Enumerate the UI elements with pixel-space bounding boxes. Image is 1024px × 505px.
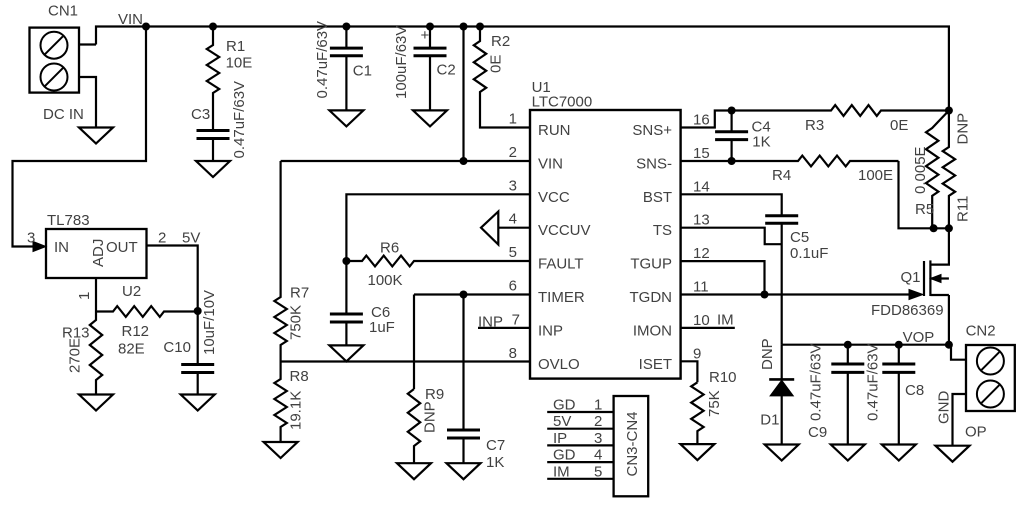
svg-text:SNS+: SNS+: [632, 122, 672, 139]
svg-text:15: 15: [693, 145, 710, 162]
svg-text:100K: 100K: [368, 272, 403, 289]
junction TIMER/C7: [460, 291, 468, 299]
ground C9: [831, 445, 865, 461]
svg-text:C3: C3: [191, 106, 210, 123]
junction rail C1: [342, 23, 350, 31]
junction 5V node: [194, 307, 202, 315]
svg-text:100E: 100E: [858, 167, 893, 184]
svg-text:C2: C2: [437, 62, 456, 79]
svg-text:U2: U2: [122, 283, 141, 300]
ground R13: [79, 395, 113, 411]
svg-text:R7: R7: [290, 285, 309, 302]
svg-text:1: 1: [509, 111, 517, 128]
svg-text:VIN: VIN: [538, 155, 563, 172]
connector CN2: [966, 345, 1015, 411]
resistor R4: [732, 156, 899, 167]
svg-text:0E: 0E: [890, 117, 908, 134]
wire drain to Q1: [930, 228, 949, 264]
svg-text:C7: C7: [486, 437, 505, 454]
wire C2 top lead: [429, 27, 431, 49]
resistor R13: [90, 311, 102, 395]
svg-text:DNP: DNP: [955, 113, 972, 145]
junction C4 top: [728, 107, 736, 115]
ground C2: [413, 110, 447, 126]
wire TGDN pin11 to gate: [681, 293, 910, 295]
wire C7 top lead: [462, 295, 464, 431]
ground R8: [264, 442, 298, 458]
wire SNS- pin15: [681, 160, 732, 162]
regulator U2 TL783: [46, 229, 147, 278]
svg-text:VCC: VCC: [538, 189, 570, 206]
svg-text:0.47uF/63V: 0.47uF/63V: [231, 81, 248, 159]
junction rail R1: [209, 23, 217, 31]
wire C6 top lead: [345, 261, 347, 314]
junction C9: [844, 341, 852, 349]
svg-text:IM: IM: [717, 311, 734, 328]
svg-text:0.005E: 0.005E: [912, 146, 929, 194]
svg-text:FDD86369: FDD86369: [871, 302, 944, 319]
svg-text:R1: R1: [226, 38, 245, 55]
svg-text:270E: 270E: [67, 338, 84, 373]
wire C5 bottom to VOP: [781, 223, 783, 344]
wire C10 bottom lead: [197, 373, 199, 395]
svg-text:750K: 750K: [288, 305, 305, 340]
svg-text:R11: R11: [955, 196, 972, 222]
svg-text:11: 11: [693, 279, 709, 296]
svg-text:6: 6: [509, 278, 517, 295]
resistor R5: [926, 111, 949, 229]
svg-text:R6: R6: [380, 240, 399, 257]
junction R11 bottom / drain node: [945, 224, 953, 232]
wire C8 top lead: [898, 345, 900, 364]
wire C9 bottom lead: [847, 372, 849, 444]
svg-text:TS: TS: [653, 222, 672, 239]
junction VCC/R6/C6 node: [342, 257, 350, 265]
svg-text:CN3-CN4: CN3-CN4: [624, 411, 641, 476]
svg-text:TGUP: TGUP: [630, 256, 672, 273]
resistor R2: [474, 27, 530, 128]
svg-text:OVLO: OVLO: [538, 356, 580, 373]
svg-text:GD: GD: [553, 447, 576, 464]
svg-text:C10: C10: [163, 339, 191, 356]
svg-text:9: 9: [693, 345, 701, 362]
svg-text:R4: R4: [772, 167, 791, 184]
resistor R9: [408, 389, 420, 463]
resistor R1: [207, 27, 219, 131]
svg-text:IMON: IMON: [633, 322, 672, 339]
svg-text:5: 5: [594, 463, 602, 480]
svg-text:C8: C8: [905, 382, 924, 399]
ground C1: [329, 110, 363, 126]
capacitor C6: [330, 314, 363, 322]
svg-text:IM: IM: [553, 463, 570, 480]
svg-text:5: 5: [509, 244, 517, 261]
svg-text:OP: OP: [965, 424, 987, 441]
op-amp U1 LTC7000 body: [530, 110, 681, 379]
svg-text:VOP: VOP: [903, 329, 935, 346]
svg-text:VIN: VIN: [118, 11, 143, 28]
svg-text:ISET: ISET: [639, 356, 672, 373]
svg-text:IP: IP: [553, 430, 567, 447]
svg-text:10E: 10E: [226, 55, 253, 72]
svg-text:1: 1: [594, 397, 602, 414]
svg-text:GND: GND: [936, 391, 953, 425]
svg-text:5V: 5V: [553, 413, 571, 430]
ground C6: [329, 345, 363, 361]
junction rail C2: [426, 23, 434, 31]
svg-text:1K: 1K: [486, 454, 504, 471]
svg-text:100uF/63V: 100uF/63V: [393, 26, 410, 99]
junction rail R2: [476, 23, 484, 31]
wire C8 bottom lead: [898, 372, 900, 444]
svg-text:C5: C5: [790, 229, 809, 246]
transistor Q1 FDD86369: [924, 260, 949, 296]
svg-text:C1: C1: [353, 63, 372, 80]
wire ISET pin9 down: [681, 361, 698, 382]
svg-text:2: 2: [509, 144, 517, 161]
wire C3 to ground: [212, 139, 214, 162]
pin 3 arrow into U2 IN: [33, 242, 46, 252]
svg-text:4: 4: [509, 211, 517, 228]
junction TGUP/TGDN: [761, 291, 769, 299]
svg-text:RUN: RUN: [538, 122, 571, 139]
wire VCC U1 pin3: [346, 194, 530, 261]
svg-text:5V: 5V: [182, 230, 200, 247]
svg-text:10uF/10V: 10uF/10V: [201, 290, 218, 355]
svg-text:0.1uF: 0.1uF: [790, 245, 828, 262]
wire OVLO U1 pin8: [281, 360, 530, 362]
wire BST pin14 to C5: [681, 194, 782, 215]
resistor R10: [691, 382, 703, 444]
ground C10: [181, 395, 215, 411]
wire C4 bottom lead: [730, 140, 732, 161]
svg-text:R5: R5: [915, 201, 934, 218]
capacitor C5: [765, 216, 798, 224]
svg-text:IN: IN: [54, 239, 69, 256]
svg-text:CN1: CN1: [48, 3, 78, 20]
ground R10: [680, 444, 714, 460]
pin 4 VCCUV open flag: [481, 212, 498, 245]
svg-text:75K: 75K: [706, 390, 723, 417]
resistor R11: [943, 111, 955, 229]
wire C1 top lead: [345, 27, 347, 49]
svg-text:R10: R10: [709, 369, 737, 386]
svg-text:1: 1: [76, 292, 93, 300]
svg-text:14: 14: [693, 178, 710, 195]
wire IMON pin10 stub: [681, 327, 735, 329]
capacitor C4: [715, 132, 748, 140]
svg-text:7: 7: [512, 311, 520, 328]
svg-text:3: 3: [27, 230, 35, 247]
wire VIN to U1 pin2: [281, 160, 530, 162]
svg-text:8: 8: [509, 345, 517, 362]
svg-text:DNP: DNP: [422, 401, 439, 433]
wire C1 bottom lead: [345, 56, 347, 111]
ground CN2: [936, 446, 970, 462]
junction R3/R5/R11 top node: [945, 107, 953, 115]
capacitor C3: [197, 131, 230, 139]
junction rail riser: [460, 23, 468, 31]
resistor R3: [732, 105, 949, 116]
svg-text:82E: 82E: [118, 341, 145, 358]
wire SNS+ pin16 up: [681, 111, 732, 128]
svg-text:R8: R8: [290, 368, 309, 385]
wire U2 ADJ down: [95, 278, 97, 311]
ground R9: [397, 463, 431, 479]
svg-text:DNP: DNP: [759, 338, 776, 370]
svg-text:1K: 1K: [752, 133, 770, 150]
ground C3: [196, 161, 230, 177]
svg-text:TIMER: TIMER: [538, 289, 585, 306]
resistor R12: [96, 306, 198, 317]
junction C4 bottom: [728, 157, 736, 165]
wire C7 bottom lead: [462, 438, 464, 463]
ground D1: [765, 445, 799, 461]
ground C7: [447, 463, 481, 479]
svg-text:2: 2: [158, 230, 166, 247]
ground C8: [882, 445, 916, 461]
svg-text:INP: INP: [538, 322, 563, 339]
ground CN1: [79, 128, 113, 144]
wire TIMER U1 pin6: [414, 293, 530, 295]
wire CN3-CN4 pin 3 stub: [547, 444, 613, 446]
wire C10 top lead: [197, 311, 199, 365]
wire CN1 pin2 to ground: [79, 77, 96, 128]
svg-text:19.1K: 19.1K: [288, 391, 305, 430]
capacitor C9: [831, 364, 864, 372]
wire VOP rail to CN2: [782, 345, 966, 360]
wire CN3-CN4 pin 5 stub: [547, 478, 613, 480]
svg-text:DC IN: DC IN: [43, 106, 84, 123]
wire VIN to U2 IN: [13, 27, 147, 247]
svg-text:INP: INP: [478, 314, 503, 331]
svg-text:VCCUV: VCCUV: [538, 222, 591, 239]
resistor R7: [274, 161, 286, 362]
svg-text:0.47uF/63V: 0.47uF/63V: [314, 21, 331, 99]
svg-text:3: 3: [594, 430, 602, 447]
wire C6 bottom lead: [345, 322, 347, 345]
svg-text:10: 10: [693, 312, 710, 329]
wire D1 anode lead: [781, 396, 783, 445]
wire CN1 pin1 stub: [79, 43, 96, 45]
junction R5 bottom: [930, 224, 938, 232]
wire TGUP pin12 down: [681, 261, 765, 294]
svg-text:OUT: OUT: [106, 239, 138, 256]
svg-text:1uF: 1uF: [369, 319, 395, 336]
svg-text:D1: D1: [760, 411, 779, 428]
capacitor C2 electrolytic: [414, 48, 447, 56]
capacitor C8: [882, 364, 915, 372]
wire rail riser to VIN pin: [462, 27, 464, 162]
wire VCCUV U1 pin4 stub: [498, 227, 530, 229]
capacitor C10: [181, 365, 214, 373]
svg-text:ADJ: ADJ: [90, 239, 107, 267]
svg-text:16: 16: [693, 112, 710, 129]
resistor R6: [346, 256, 530, 267]
wire VIN top rail: [96, 27, 949, 111]
junction C8: [895, 341, 903, 349]
svg-text:R9: R9: [425, 386, 444, 403]
wire net INP stub U1 pin7: [478, 327, 530, 329]
svg-text:GD: GD: [553, 397, 576, 414]
svg-text:0.47uF/63V: 0.47uF/63V: [808, 343, 825, 421]
wire C2 bottom lead: [429, 56, 431, 111]
svg-text:13: 13: [693, 212, 710, 229]
svg-text:R2: R2: [491, 33, 510, 50]
connector CN3-CN4: [614, 396, 649, 496]
svg-text:R3: R3: [805, 117, 824, 134]
resistor R8: [274, 362, 286, 443]
svg-text:TL783: TL783: [47, 212, 90, 229]
svg-text:TGDN: TGDN: [630, 289, 673, 306]
svg-text:LTC7000: LTC7000: [532, 94, 593, 111]
junction VIN rail / CN1: [142, 23, 150, 31]
diode D1: [769, 379, 794, 396]
wire D1 cathode lead: [781, 345, 783, 380]
wire CN3-CN4 pin 2 stub: [547, 428, 613, 430]
svg-text:Q1: Q1: [901, 269, 921, 286]
wire U2 OUT to 5V node: [147, 246, 198, 312]
svg-text:C9: C9: [808, 424, 827, 441]
wire C4 top lead: [730, 111, 732, 132]
connector CN1 DC IN: [30, 28, 80, 93]
wire C9 top lead: [847, 345, 849, 364]
svg-text:+: +: [421, 27, 430, 44]
junction Q1 source / VOP: [945, 341, 953, 349]
wire CN3-CN4 pin 1 stub: [547, 411, 613, 413]
svg-text:R12: R12: [122, 323, 150, 340]
gate arrow: [909, 290, 923, 300]
capacitor C1: [330, 48, 363, 56]
svg-text:CN2: CN2: [966, 323, 996, 340]
svg-text:FAULT: FAULT: [538, 256, 584, 273]
svg-text:3: 3: [509, 177, 517, 194]
svg-text:2: 2: [594, 413, 602, 430]
svg-text:0.47uF/63V: 0.47uF/63V: [865, 343, 882, 421]
wire TS pin13 jog: [681, 228, 782, 245]
capacitor C7: [447, 430, 480, 438]
junction riser VIN pin: [460, 157, 468, 165]
svg-text:4: 4: [594, 447, 602, 464]
wire CN3-CN4 pin 4 stub: [547, 461, 613, 463]
wire CN2 pin2 to ground: [953, 394, 967, 446]
svg-text:BST: BST: [643, 189, 672, 206]
wire Q1 source down to VOP: [948, 295, 950, 345]
wire R4 down to sense node: [899, 161, 949, 228]
svg-text:12: 12: [693, 245, 710, 262]
svg-text:0E: 0E: [488, 55, 505, 73]
svg-text:SNS-: SNS-: [636, 155, 672, 172]
wire TIMER down to R9: [413, 295, 415, 390]
